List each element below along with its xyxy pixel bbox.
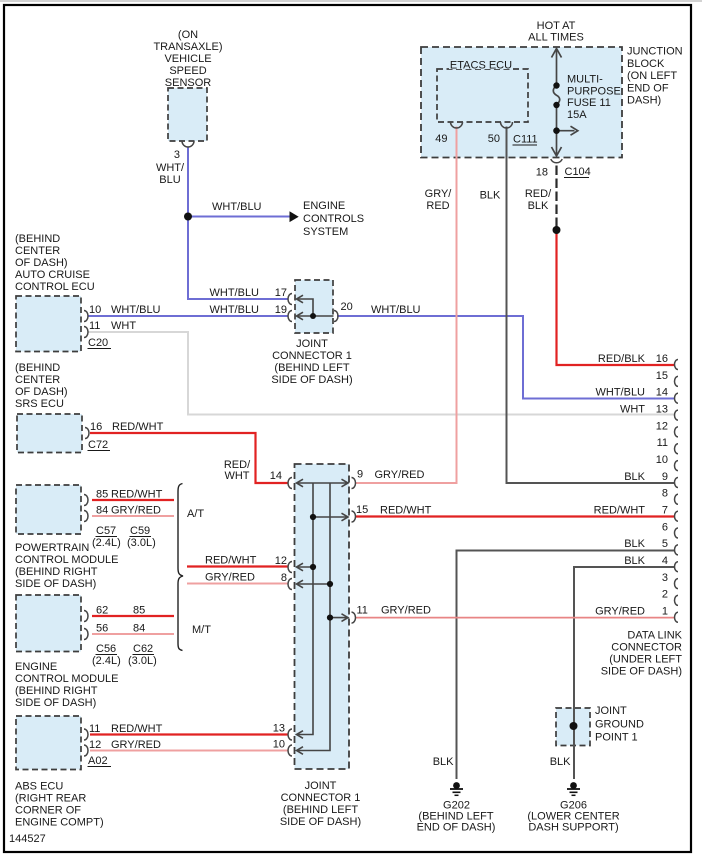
svg-text:C62: C62 bbox=[133, 643, 153, 655]
svg-text:RED/: RED/ bbox=[525, 188, 552, 200]
svg-text:ENGINE: ENGINE bbox=[303, 200, 345, 212]
svg-text:END OF DASH): END OF DASH) bbox=[417, 822, 496, 834]
svg-text:BLK: BLK bbox=[480, 190, 501, 202]
svg-text:16: 16 bbox=[656, 353, 668, 365]
svg-text:C104: C104 bbox=[565, 166, 591, 178]
svg-text:49: 49 bbox=[435, 133, 447, 145]
svg-text:JOINT: JOINT bbox=[595, 705, 627, 717]
svg-text:RED/WHT: RED/WHT bbox=[111, 489, 163, 501]
svg-text:HOT AT: HOT AT bbox=[537, 20, 576, 32]
svg-text:10: 10 bbox=[89, 304, 101, 316]
svg-text:3: 3 bbox=[174, 149, 180, 161]
svg-text:1: 1 bbox=[662, 606, 668, 618]
svg-text:BLOCK: BLOCK bbox=[627, 58, 665, 70]
svg-text:(3.0L): (3.0L) bbox=[128, 655, 157, 667]
svg-text:56: 56 bbox=[96, 623, 108, 635]
svg-text:GRY/RED: GRY/RED bbox=[375, 469, 425, 481]
svg-text:TRANSAXLE): TRANSAXLE) bbox=[153, 41, 222, 53]
svg-text:50: 50 bbox=[488, 133, 500, 145]
svg-text:JOINT: JOINT bbox=[296, 338, 328, 350]
svg-text:WHT/BLU: WHT/BLU bbox=[371, 304, 421, 316]
svg-text:(BEHIND RIGHT: (BEHIND RIGHT bbox=[15, 566, 98, 578]
svg-text:CONTROLS: CONTROLS bbox=[303, 213, 364, 225]
svg-text:GROUND: GROUND bbox=[595, 718, 644, 730]
svg-text:84: 84 bbox=[133, 623, 145, 635]
svg-text:PURPOSE: PURPOSE bbox=[567, 85, 621, 97]
svg-text:15: 15 bbox=[656, 370, 668, 382]
svg-text:8: 8 bbox=[281, 572, 287, 584]
svg-text:M/T: M/T bbox=[192, 624, 211, 636]
svg-text:13: 13 bbox=[656, 404, 668, 416]
svg-text:SIDE OF DASH): SIDE OF DASH) bbox=[271, 374, 352, 386]
svg-text:10: 10 bbox=[656, 454, 668, 466]
svg-text:GRY/RED: GRY/RED bbox=[111, 505, 161, 517]
svg-text:SIDE OF DASH): SIDE OF DASH) bbox=[280, 816, 361, 828]
svg-text:SIDE OF DASH): SIDE OF DASH) bbox=[15, 578, 96, 590]
svg-text:CONTROL ECU: CONTROL ECU bbox=[15, 281, 95, 293]
svg-text:(2.4L): (2.4L) bbox=[92, 655, 121, 667]
svg-text:7: 7 bbox=[662, 505, 668, 517]
svg-text:CONTROL MODULE: CONTROL MODULE bbox=[15, 673, 119, 685]
svg-text:12: 12 bbox=[656, 420, 668, 432]
svg-text:DATA LINK: DATA LINK bbox=[627, 630, 682, 642]
svg-text:11: 11 bbox=[89, 723, 100, 735]
svg-text:BLK: BLK bbox=[624, 471, 645, 483]
svg-text:18: 18 bbox=[536, 167, 548, 179]
svg-text:17: 17 bbox=[275, 287, 287, 299]
svg-text:12: 12 bbox=[89, 739, 101, 751]
svg-text:WHT/BLU: WHT/BLU bbox=[596, 387, 646, 399]
svg-text:C59: C59 bbox=[130, 525, 150, 537]
svg-text:BLU: BLU bbox=[159, 174, 180, 186]
svg-text:15A: 15A bbox=[567, 109, 587, 121]
svg-text:RED/WHT: RED/WHT bbox=[205, 555, 257, 567]
svg-text:DASH SUPPORT): DASH SUPPORT) bbox=[528, 822, 618, 834]
svg-text:12: 12 bbox=[275, 555, 287, 567]
svg-text:16: 16 bbox=[90, 421, 102, 433]
svg-text:A/T: A/T bbox=[187, 508, 204, 520]
svg-text:CENTER: CENTER bbox=[15, 374, 60, 386]
svg-text:POINT 1: POINT 1 bbox=[595, 732, 638, 744]
svg-text:VEHICLE: VEHICLE bbox=[164, 53, 211, 65]
svg-text:ABS ECU: ABS ECU bbox=[15, 781, 63, 793]
svg-text:BLK: BLK bbox=[528, 200, 549, 212]
svg-text:RED/WHT: RED/WHT bbox=[594, 505, 646, 517]
svg-text:SYSTEM: SYSTEM bbox=[303, 226, 348, 238]
svg-text:(RIGHT REAR: (RIGHT REAR bbox=[15, 793, 86, 805]
svg-text:CONTROL MODULE: CONTROL MODULE bbox=[15, 554, 119, 566]
svg-text:85: 85 bbox=[133, 605, 145, 617]
svg-text:19: 19 bbox=[275, 304, 287, 316]
svg-text:OF DASH): OF DASH) bbox=[15, 257, 68, 269]
svg-text:WHT/BLU: WHT/BLU bbox=[212, 201, 262, 213]
svg-text:ENGINE COMPT): ENGINE COMPT) bbox=[15, 817, 104, 829]
svg-text:RED/WHT: RED/WHT bbox=[111, 723, 163, 735]
svg-text:CENTER: CENTER bbox=[15, 245, 60, 257]
svg-text:DASH): DASH) bbox=[627, 95, 661, 107]
svg-text:C56: C56 bbox=[96, 643, 116, 655]
svg-text:CONNECTOR: CONNECTOR bbox=[611, 642, 682, 654]
svg-text:(2.4L): (2.4L) bbox=[92, 537, 121, 549]
svg-text:9: 9 bbox=[662, 471, 668, 483]
svg-text:C57: C57 bbox=[96, 525, 116, 537]
svg-text:MULTI-: MULTI- bbox=[567, 74, 603, 86]
svg-text:AUTO CRUISE: AUTO CRUISE bbox=[15, 269, 90, 281]
svg-text:CONNECTOR 1: CONNECTOR 1 bbox=[281, 792, 361, 804]
svg-text:POWERTRAIN: POWERTRAIN bbox=[15, 542, 89, 554]
svg-text:14: 14 bbox=[270, 470, 282, 482]
svg-text:GRY/RED: GRY/RED bbox=[381, 605, 431, 617]
svg-text:RED: RED bbox=[426, 200, 449, 212]
svg-text:(BEHIND RIGHT: (BEHIND RIGHT bbox=[15, 685, 98, 697]
svg-text:GRY/RED: GRY/RED bbox=[205, 572, 255, 584]
svg-text:WHT/BLU: WHT/BLU bbox=[111, 304, 161, 316]
svg-text:62: 62 bbox=[96, 605, 108, 617]
svg-text:(ON LEFT: (ON LEFT bbox=[627, 70, 677, 82]
svg-text:ALL TIMES: ALL TIMES bbox=[528, 32, 584, 44]
svg-text:BLK: BLK bbox=[433, 756, 454, 768]
svg-text:15: 15 bbox=[356, 504, 368, 516]
svg-text:(BEHIND: (BEHIND bbox=[15, 233, 60, 245]
svg-text:14: 14 bbox=[656, 387, 668, 399]
svg-text:(BEHIND: (BEHIND bbox=[15, 362, 60, 374]
svg-text:WHT/BLU: WHT/BLU bbox=[210, 304, 260, 316]
svg-text:SIDE OF DASH): SIDE OF DASH) bbox=[15, 697, 96, 709]
svg-text:20: 20 bbox=[341, 301, 353, 313]
svg-text:6: 6 bbox=[662, 521, 668, 533]
svg-text:(UNDER LEFT: (UNDER LEFT bbox=[609, 654, 682, 666]
svg-text:(3.0L): (3.0L) bbox=[127, 537, 156, 549]
svg-text:RED/WHT: RED/WHT bbox=[380, 505, 432, 517]
svg-text:C111: C111 bbox=[513, 134, 538, 146]
svg-text:ENGINE: ENGINE bbox=[15, 661, 57, 673]
svg-text:4: 4 bbox=[662, 555, 668, 567]
svg-text:JOINT: JOINT bbox=[305, 780, 337, 792]
svg-text:GRY/RED: GRY/RED bbox=[595, 606, 645, 618]
svg-text:SIDE OF DASH): SIDE OF DASH) bbox=[601, 666, 682, 678]
svg-text:3: 3 bbox=[662, 572, 668, 584]
svg-text:A02: A02 bbox=[88, 755, 108, 767]
svg-text:JUNCTION: JUNCTION bbox=[627, 46, 683, 58]
svg-text:BLK: BLK bbox=[624, 538, 645, 550]
svg-text:84: 84 bbox=[96, 505, 108, 517]
svg-text:WHT: WHT bbox=[111, 320, 136, 332]
svg-text:C20: C20 bbox=[88, 337, 108, 349]
svg-text:RED/WHT: RED/WHT bbox=[112, 421, 164, 433]
svg-text:BLK: BLK bbox=[550, 756, 571, 768]
svg-text:OF DASH): OF DASH) bbox=[15, 386, 68, 398]
svg-text:WHT/: WHT/ bbox=[156, 162, 185, 174]
svg-text:11: 11 bbox=[89, 320, 100, 332]
svg-text:GRY/: GRY/ bbox=[425, 188, 453, 200]
svg-text:CORNER OF: CORNER OF bbox=[15, 805, 81, 817]
svg-text:GRY/RED: GRY/RED bbox=[111, 739, 161, 751]
svg-text:SRS ECU: SRS ECU bbox=[15, 398, 64, 410]
svg-text:8: 8 bbox=[662, 488, 668, 500]
svg-text:BLK: BLK bbox=[624, 555, 645, 567]
svg-text:CONNECTOR 1: CONNECTOR 1 bbox=[272, 350, 352, 362]
svg-text:(ON: (ON bbox=[178, 29, 198, 41]
svg-text:WHT: WHT bbox=[620, 404, 645, 416]
svg-text:END OF: END OF bbox=[627, 82, 669, 94]
svg-text:FUSE 11: FUSE 11 bbox=[567, 97, 611, 109]
svg-text:(BEHIND LEFT: (BEHIND LEFT bbox=[283, 804, 358, 816]
svg-text:10: 10 bbox=[273, 739, 285, 751]
svg-text:2: 2 bbox=[662, 589, 668, 601]
svg-text:5: 5 bbox=[662, 538, 668, 550]
svg-text:11: 11 bbox=[357, 605, 368, 617]
svg-text:SPEED: SPEED bbox=[169, 65, 206, 77]
svg-text:RED/BLK: RED/BLK bbox=[598, 353, 646, 365]
svg-text:WHT: WHT bbox=[224, 470, 249, 482]
svg-text:C72: C72 bbox=[88, 439, 108, 451]
svg-text:85: 85 bbox=[96, 489, 108, 501]
svg-text:ETACS ECU: ETACS ECU bbox=[450, 60, 512, 72]
svg-text:13: 13 bbox=[273, 723, 285, 735]
svg-text:144527: 144527 bbox=[9, 833, 46, 845]
svg-text:SENSOR: SENSOR bbox=[165, 77, 212, 89]
svg-text:(BEHIND LEFT: (BEHIND LEFT bbox=[274, 362, 349, 374]
svg-text:WHT/BLU: WHT/BLU bbox=[210, 287, 260, 299]
svg-text:9: 9 bbox=[357, 469, 363, 481]
svg-text:11: 11 bbox=[657, 437, 668, 449]
